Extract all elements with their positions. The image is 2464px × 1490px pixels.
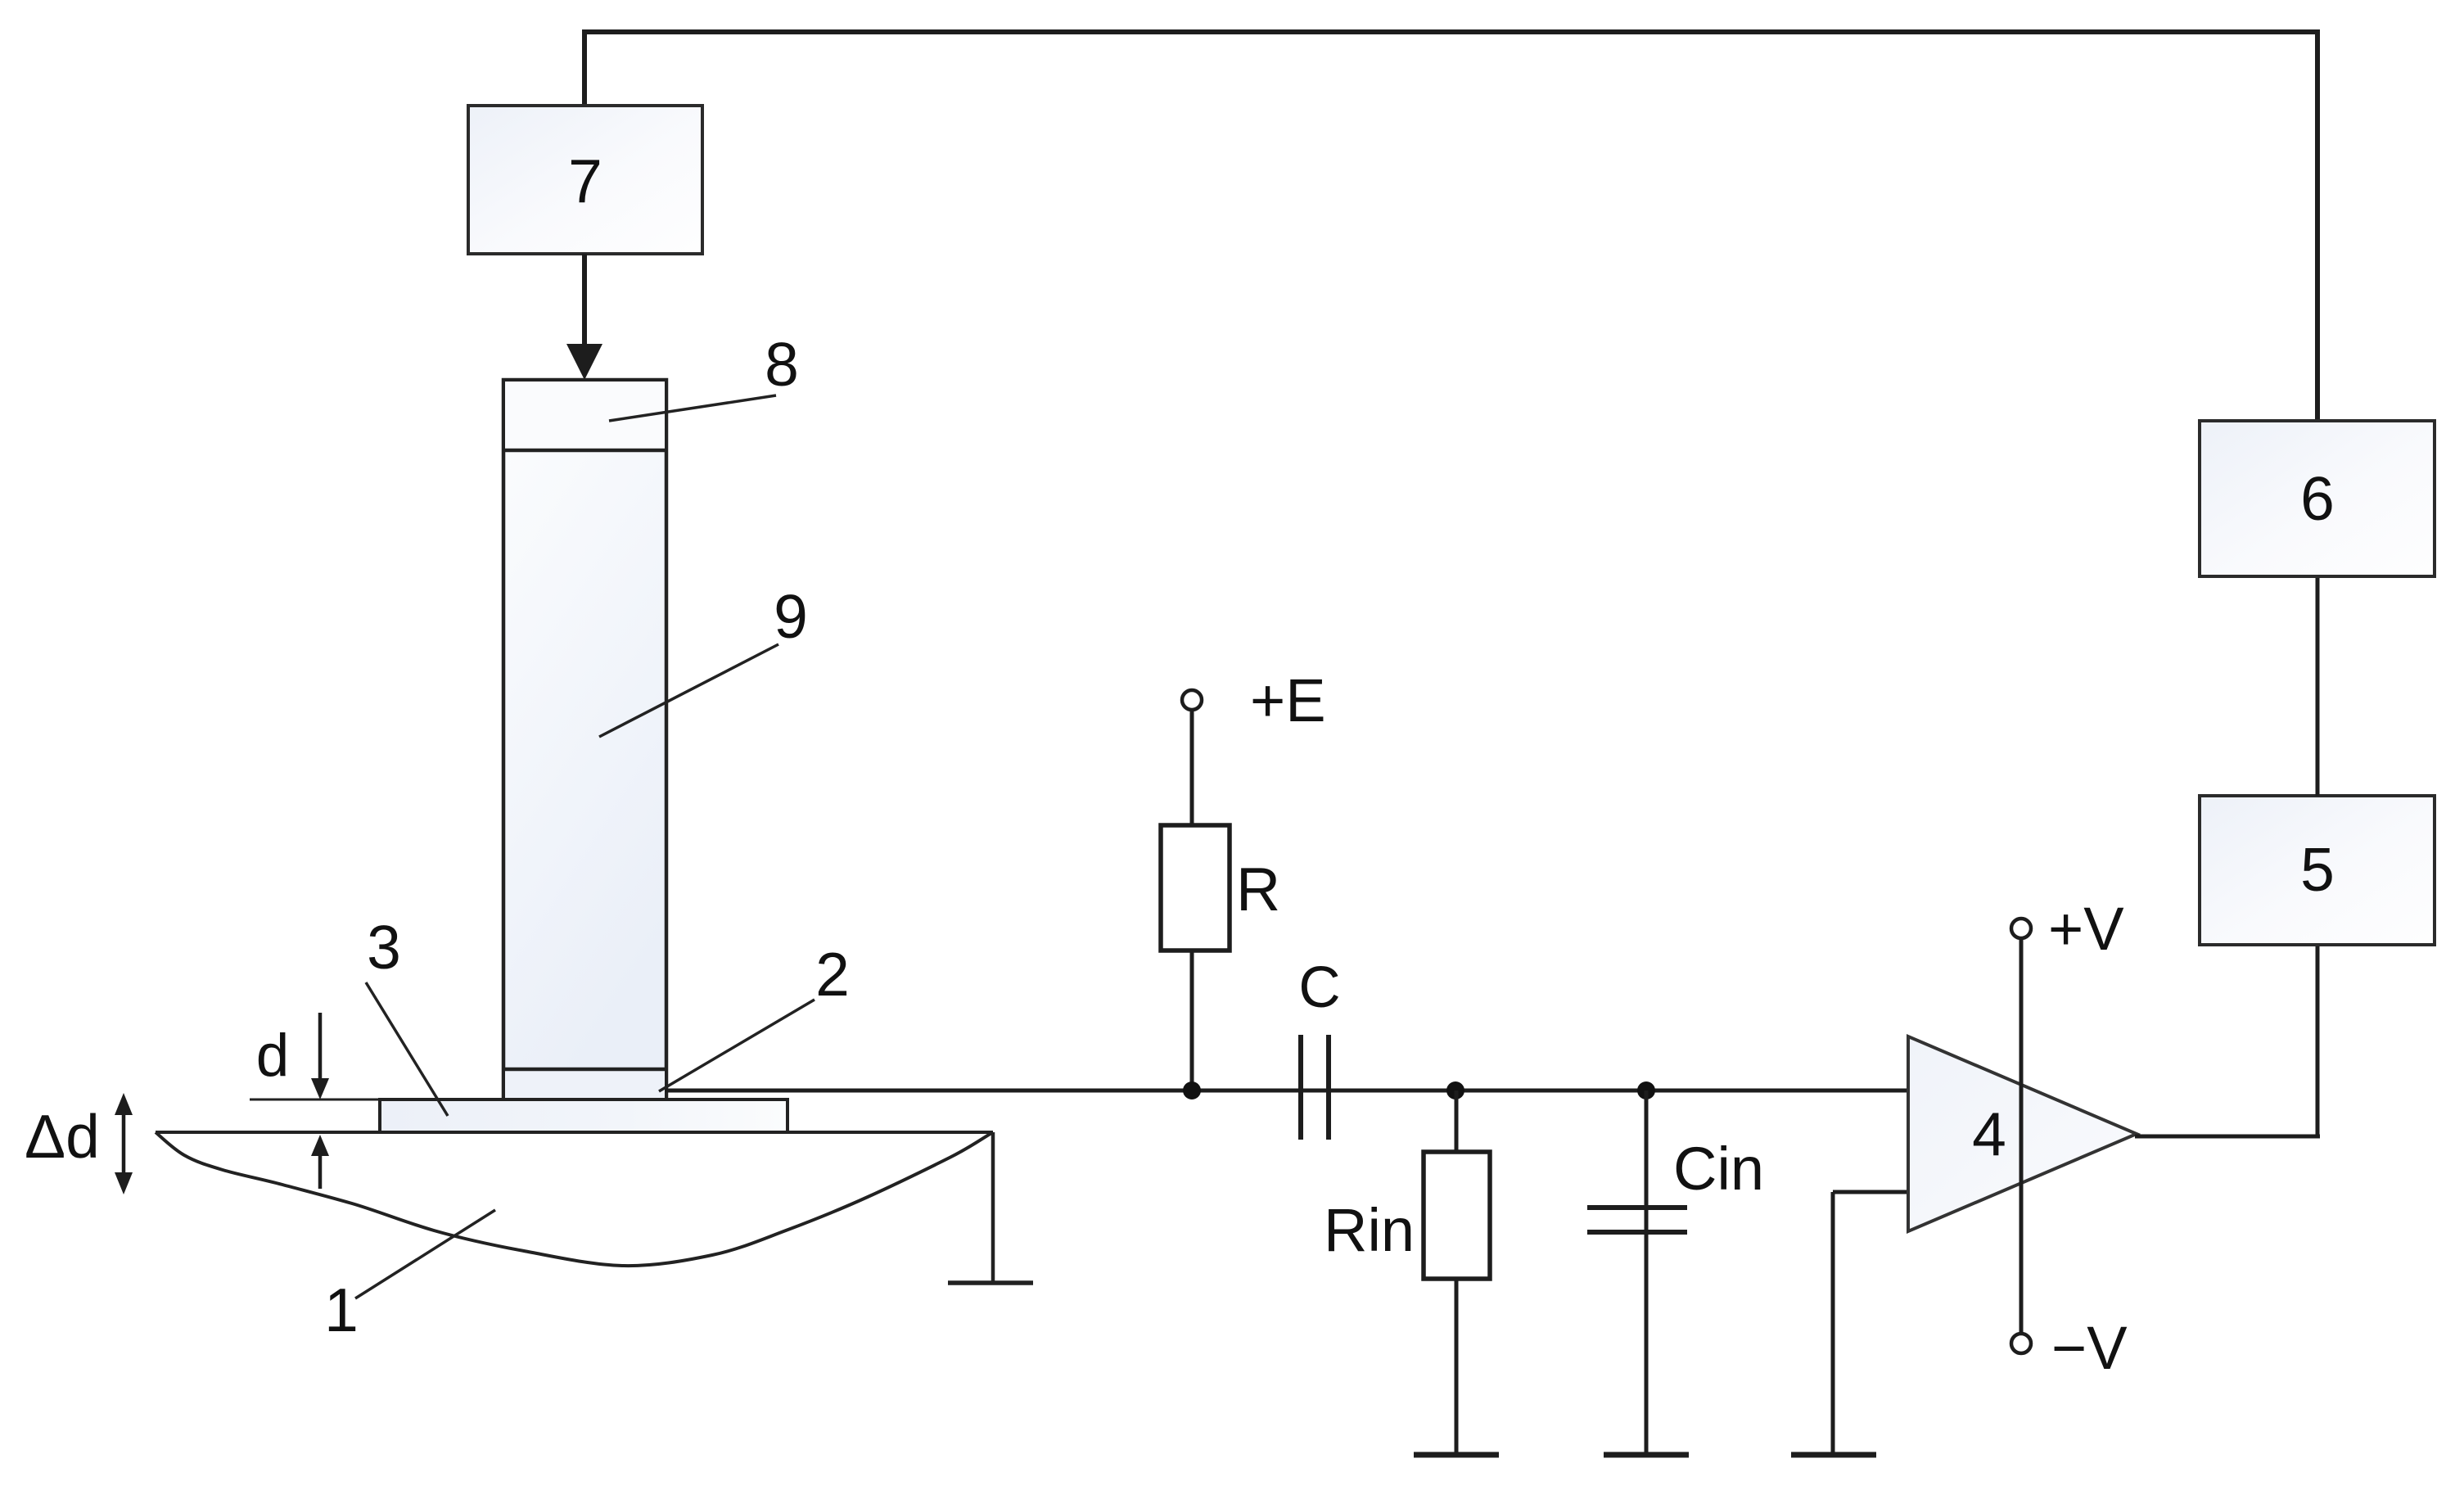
svg-text:9: 9 xyxy=(774,582,808,651)
svg-text:5: 5 xyxy=(2300,835,2335,904)
svg-text:C: C xyxy=(1298,955,1340,1020)
svg-text:+V: +V xyxy=(2048,895,2124,963)
svg-text:7: 7 xyxy=(568,147,602,215)
svg-text:d: d xyxy=(256,1023,290,1089)
svg-text:R: R xyxy=(1236,855,1280,923)
svg-text:−V: −V xyxy=(2051,1314,2128,1382)
svg-text:Δd: Δd xyxy=(25,1102,100,1171)
svg-text:1: 1 xyxy=(324,1276,359,1344)
svg-text:8: 8 xyxy=(765,330,799,399)
svg-text:6: 6 xyxy=(2300,464,2335,533)
svg-text:Rin: Rin xyxy=(1324,1196,1415,1264)
svg-text:3: 3 xyxy=(367,913,401,982)
svg-text:+E: +E xyxy=(1250,666,1326,734)
svg-text:2: 2 xyxy=(815,940,850,1009)
svg-text:Cin: Cin xyxy=(1673,1135,1764,1203)
svg-text:4: 4 xyxy=(1972,1099,2006,1168)
